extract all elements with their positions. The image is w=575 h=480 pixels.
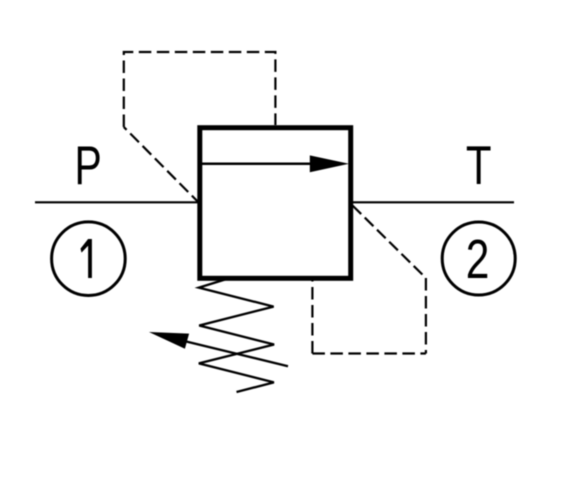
svg-text:T: T [466,136,492,197]
pilot line right diagonal segment (dashed) [353,206,426,279]
wire T line [351,201,514,203]
pilot line right vertical segment (dashed) [425,278,427,354]
flow arrow head [310,155,349,172]
adjustment arrow head [149,332,189,349]
valve body V1 [200,128,351,279]
node 1 text [81,239,92,278]
node 2 circle [442,222,515,295]
adjustment arrow shaft [180,340,288,366]
node 1 circle [52,222,126,296]
wire P line [35,201,199,203]
svg-text:2: 2 [466,230,490,290]
pilot line left upper segment (dashed) [124,52,276,127]
spring S1 [199,280,274,393]
pilot line right bottom segment (dashed) [312,352,426,354]
svg-text:P: P [75,135,102,196]
pilot line left diagonal segment (dashed) [124,127,201,204]
flow arrow shaft [202,163,315,166]
pilot line right stub to valve bottom (dashed) [311,280,313,354]
